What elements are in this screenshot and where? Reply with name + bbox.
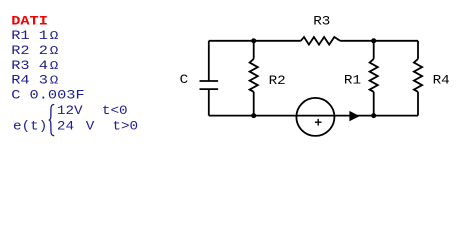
svg-text:R1 1: R1 1 [11,29,48,43]
svg-text:Ω: Ω [50,59,59,73]
svg-text:Ω: Ω [50,44,59,58]
junction dot top R1 [371,38,376,43]
svg-text:Ω: Ω [50,73,59,87]
capacitor C plates [200,80,219,82]
junction dot bottom R2 [251,113,256,118]
source e(t) circle [296,98,334,136]
svg-text:24: 24 [57,120,74,134]
svg-text:V: V [86,120,95,134]
svg-text:R2 2: R2 2 [11,44,48,58]
wire left edge lower (capacitor to bottom rail) [208,89,210,115]
brace of e(t) cases [49,105,54,136]
svg-text:R4: R4 [433,74,450,88]
svg-text:R3: R3 [313,15,330,29]
junction dot bottom R1 [371,113,376,118]
wire top rail left segment [209,40,301,42]
svg-text:e(t): e(t) [13,120,47,134]
wire top rail right segment [340,40,418,42]
wire left edge upper (to capacitor) [208,41,210,81]
svg-text:C 0.003F: C 0.003F [11,89,84,103]
resistor R1 branch [373,41,375,59]
svg-text:t>0: t>0 [112,120,138,134]
plus sign inside source [315,119,322,126]
svg-text:Ω: Ω [50,29,59,43]
junction dot top R2 [251,38,256,43]
svg-text:12V: 12V [57,105,83,119]
svg-text:C: C [180,74,189,88]
wire bottom rail [209,115,418,117]
resistor R2 branch [253,41,255,59]
resistor R4 branch (right edge) [417,41,419,59]
svg-text:R2: R2 [269,75,286,89]
svg-text:t<0: t<0 [102,105,128,119]
current direction arrow [349,111,359,121]
resistor R3 zigzag [301,37,340,45]
svg-text:R3 4: R3 4 [11,59,48,73]
svg-text:R4 3: R4 3 [11,74,48,88]
svg-text:R1: R1 [344,74,361,88]
svg-text:DATI: DATI [11,15,48,29]
